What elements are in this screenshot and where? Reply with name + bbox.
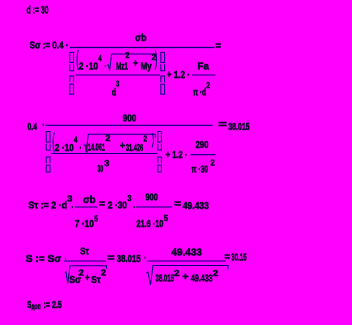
svg-text:·: · [65,254,67,265]
block 2 Fa fraction bar [192,74,215,76]
svg-text:·: · [134,202,136,213]
block 3 inner open paren [53,133,54,153]
block 3 radical sign [84,134,156,152]
svg-text:30: 30 [98,164,104,175]
svg-text:σb: σb [135,33,147,44]
svg-text:2: 2 [143,134,147,143]
svg-text:·: · [80,143,82,154]
svg-text:2: 2 [105,134,111,143]
svg-text:2: 2 [101,269,107,278]
block 3 main fraction bar [45,124,213,126]
block 5 fraction 1 bar [64,260,106,262]
svg-text:31.426: 31.426 [126,143,143,154]
svg-text:Sτ := 2 ·d: Sτ := 2 ·d [28,201,67,212]
block 2 inner open paren [77,50,78,70]
svg-text:My: My [141,62,152,73]
block 3 big left paren segments [46,132,50,173]
svg-text:3: 3 [104,159,110,168]
svg-text:5: 5 [94,214,98,223]
svg-text:Sσ := 0.4 ·: Sσ := 0.4 · [30,41,69,52]
svg-text:2 ·30: 2 ·30 [108,201,127,212]
svg-text:2: 2 [152,53,157,62]
svg-text:2: 2 [206,81,210,90]
block 2 inner close paren [155,50,156,70]
svg-text:2 ·10: 2 ·10 [55,143,74,154]
svg-text:2: 2 [78,269,84,278]
svg-text:π ·d: π ·d [193,87,206,98]
svg-text:30.15: 30.15 [231,253,246,264]
svg-text:2: 2 [213,269,219,278]
svg-text:7 ·10: 7 ·10 [75,219,94,230]
svg-text:21.6 ·10: 21.6 ·10 [136,219,163,230]
svg-text:3: 3 [116,80,120,89]
svg-text:38.015: 38.015 [117,254,141,265]
svg-text:4: 4 [98,54,102,63]
svg-text:(14.061: (14.061 [86,143,105,154]
svg-text:4: 4 [74,136,78,145]
block 3 close paren in sqrt [152,133,154,148]
block 2 radical sign [107,54,156,71]
svg-text:+: + [133,59,138,70]
svg-text:2: 2 [125,51,130,60]
svg-text:=: = [225,252,231,263]
svg-text:900: 900 [146,193,159,204]
svg-text:·: · [144,253,146,264]
block 2 big left paren segments [70,52,74,94]
svg-text:Sτ: Sτ [80,247,89,258]
svg-text:=: = [216,41,221,52]
svg-text:+: + [182,272,188,283]
svg-text:доп: доп [31,302,40,311]
svg-text:Sτ: Sτ [91,275,101,286]
svg-text:σb: σb [83,195,96,206]
block 4 fraction 1 bar [75,206,98,208]
svg-text:2: 2 [174,269,180,278]
svg-text:=: = [108,253,115,264]
svg-text:+ 1.2 ·: + 1.2 · [166,150,187,161]
svg-text:49.433: 49.433 [183,201,209,212]
svg-text:d := 30: d := 30 [27,5,49,17]
svg-text:3: 3 [127,194,132,203]
svg-text::= 2.5: := 2.5 [44,300,63,311]
svg-text:900: 900 [123,113,137,124]
block 2 big right paren segments [161,52,165,94]
block 5 fraction 2 bar [148,260,226,262]
block 5 radical 1 [65,266,107,284]
svg-text:5: 5 [164,214,169,223]
svg-text:0.4: 0.4 [28,122,38,133]
svg-text:·: · [42,120,44,131]
svg-text:+: + [120,141,125,152]
svg-text:2 ·10: 2 ·10 [79,62,99,73]
svg-text:+: + [85,273,90,284]
block 3 290 fraction bar [191,154,216,156]
block 2 main fraction bar [70,47,215,49]
svg-text:=: = [99,199,105,210]
svg-text:d: d [112,87,116,98]
block 2 inner fraction bar [75,74,160,76]
block 4 fraction 2 bar [136,206,172,208]
svg-text:Fa: Fa [198,62,210,73]
svg-text:Mz1: Mz1 [116,62,128,73]
block 3 inner fraction bar [51,153,158,155]
svg-text:S := Sσ: S := Sσ [26,254,62,265]
svg-text:π ·30: π ·30 [191,165,208,176]
svg-text:38.015: 38.015 [156,274,175,285]
svg-text:·: · [105,62,107,73]
svg-text:+ 1.2 ·: + 1.2 · [167,70,190,81]
svg-text:49.433: 49.433 [191,274,213,285]
svg-text:290: 290 [196,140,209,151]
svg-text:=: = [174,199,181,210]
svg-text:2: 2 [211,159,216,168]
svg-text:38.015: 38.015 [228,122,249,133]
block 5 radical 2 [146,266,228,285]
svg-text:49.433: 49.433 [171,247,202,258]
svg-text:·: · [72,202,74,213]
svg-text:=: = [218,119,227,130]
block 3 big right paren segments [158,132,162,173]
